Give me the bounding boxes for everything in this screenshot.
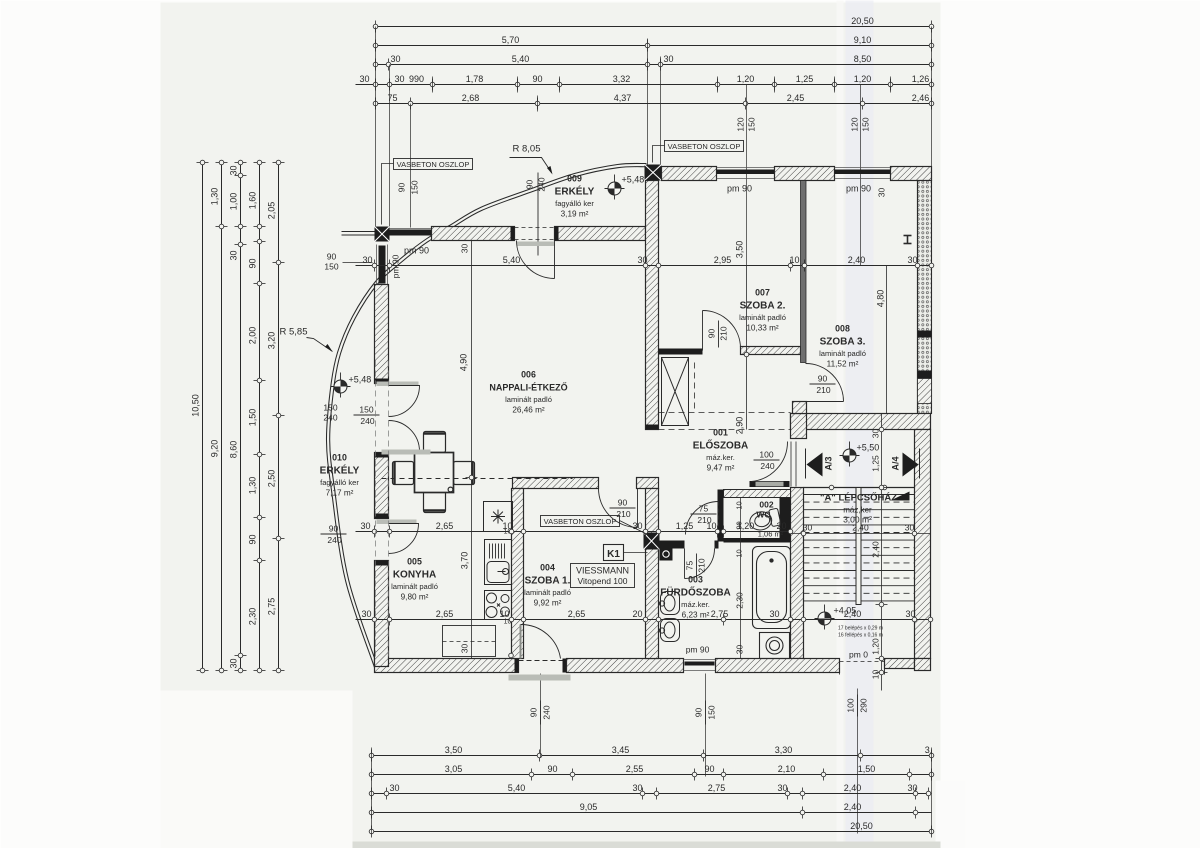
- top dim line 5,40 / 8,50: [373, 54, 934, 71]
- vasbeton oszlop box 1: [382, 159, 473, 225]
- section mark A/3: [806, 449, 834, 479]
- window labels 120/150: [736, 117, 871, 131]
- svg-text:2,30: 2,30: [248, 608, 258, 626]
- svg-text:pm 90: pm 90: [686, 645, 710, 655]
- left wall window bar: [377, 245, 388, 285]
- svg-text:2,40: 2,40: [844, 783, 862, 793]
- svg-text:VASBETON OSZLOP: VASBETON OSZLOP: [397, 160, 470, 169]
- svg-text:4,90: 4,90: [459, 354, 469, 372]
- kitchen balcony door 90/240: [377, 520, 419, 554]
- svg-text:2,50: 2,50: [267, 470, 277, 488]
- top dim line detail: [356, 74, 934, 91]
- svg-text:30: 30: [632, 783, 642, 793]
- svg-text:30: 30: [394, 74, 404, 84]
- svg-text:3,: 3,: [925, 745, 933, 755]
- svg-text:pm 90: pm 90: [404, 246, 429, 256]
- window label 90/150 left: [397, 180, 420, 194]
- bottom dim 20,50: [369, 821, 934, 838]
- R 8,05 label: [510, 144, 553, 175]
- svg-text:laminált padló: laminált padló: [524, 588, 571, 597]
- dim label szoba3 door 90/210: [810, 374, 836, 396]
- svg-text:4,37: 4,37: [614, 93, 632, 103]
- balcony top door sill: [517, 242, 555, 247]
- svg-text:002: 002: [759, 500, 773, 510]
- svg-text:240: 240: [360, 416, 374, 426]
- left wall X column: [375, 227, 390, 242]
- svg-text:001: 001: [713, 428, 728, 438]
- svg-text:30: 30: [769, 609, 779, 619]
- balcony double door 150/240: [377, 382, 420, 452]
- WC left wall: [718, 490, 724, 542]
- wall szoba1-bath: [646, 489, 659, 659]
- svg-text:120: 120: [850, 117, 860, 131]
- svg-text:10,33 m²: 10,33 m²: [746, 324, 779, 333]
- svg-text:30: 30: [390, 54, 400, 64]
- bath door arc (bath side): [685, 549, 715, 579]
- room label erkely 009: [555, 174, 595, 219]
- room label furdoszoba 003: [660, 575, 731, 620]
- dim label bath door 75/210: [691, 504, 717, 526]
- svg-text:2,30: 2,30: [735, 592, 745, 609]
- svg-text:30: 30: [359, 74, 369, 84]
- svg-text:30: 30: [460, 644, 470, 654]
- szoba2 door 90/210: [703, 311, 741, 351]
- svg-text:90: 90: [818, 374, 828, 384]
- wall bar right part: [637, 478, 659, 489]
- level marker +5,48 left: [331, 373, 372, 398]
- svg-text:NAPPALI-ÉTKEZŐ: NAPPALI-ÉTKEZŐ: [489, 382, 567, 393]
- window label 90/150 bottom: [694, 701, 717, 725]
- svg-text:9,92 m²: 9,92 m²: [534, 599, 562, 608]
- svg-text:A/4: A/4: [891, 456, 901, 470]
- ventilation shaft: [662, 358, 689, 426]
- svg-text:2,40: 2,40: [844, 609, 862, 619]
- svg-text:10: 10: [499, 609, 509, 619]
- svg-text:90: 90: [327, 252, 337, 262]
- svg-text:30: 30: [777, 783, 787, 793]
- svg-text:2,68: 2,68: [462, 93, 480, 103]
- stair texts: [820, 492, 897, 525]
- svg-text:máz,ker: máz,ker: [843, 506, 872, 515]
- svg-text:90: 90: [529, 708, 539, 718]
- svg-text:1,26: 1,26: [912, 74, 930, 84]
- svg-text:10: 10: [502, 521, 512, 531]
- svg-text:30: 30: [735, 645, 745, 655]
- bottom grey strip: [353, 842, 941, 848]
- svg-text:pm 90: pm 90: [727, 184, 752, 194]
- svg-text:30: 30: [803, 523, 813, 533]
- svg-text:1,20: 1,20: [737, 74, 755, 84]
- svg-text:150: 150: [707, 705, 717, 719]
- room label nappali 006: [489, 370, 567, 415]
- svg-text:7,17 m²: 7,17 m²: [326, 489, 354, 498]
- wall nappali-szoba2: [646, 181, 659, 430]
- svg-text:laminált padló: laminált padló: [739, 313, 786, 322]
- svg-text:SZOBA 3.: SZOBA 3.: [820, 337, 866, 348]
- svg-text:90: 90: [618, 498, 628, 508]
- svg-text:150: 150: [747, 117, 757, 131]
- svg-text:8,60: 8,60: [229, 441, 239, 459]
- szoba3 vertical dim 4,80: [876, 266, 887, 414]
- svg-text:2,05: 2,05: [267, 202, 277, 220]
- flue block: [660, 548, 673, 561]
- svg-text:30: 30: [229, 658, 239, 668]
- left wall segment 1: [375, 285, 389, 384]
- svg-text:10: 10: [735, 501, 744, 509]
- wc room label: [756, 500, 773, 520]
- svg-text:30: 30: [229, 250, 239, 260]
- svg-text:VIESSMANN: VIESSMANN: [576, 566, 629, 576]
- svg-text:240: 240: [327, 535, 341, 545]
- svg-text:"A" LÉPCSŐHÁZ: "A" LÉPCSŐHÁZ: [820, 492, 897, 504]
- window top W1 pm90: [717, 168, 775, 179]
- left dim 2,05/3,20: [267, 160, 285, 673]
- section mark I on right wall: [904, 236, 912, 244]
- svg-text:008: 008: [835, 324, 850, 334]
- svg-text:17 belépés x 0,29 m: 17 belépés x 0,29 m: [838, 626, 883, 632]
- dining table: [393, 432, 475, 513]
- svg-text:3,05: 3,05: [445, 764, 463, 774]
- svg-text:20,50: 20,50: [850, 821, 873, 831]
- szoba2 south wall black bar: [659, 349, 703, 355]
- level marker +5,50 landing: [840, 442, 880, 467]
- svg-text:ERKÉLY: ERKÉLY: [555, 185, 595, 198]
- svg-text:30: 30: [229, 165, 239, 175]
- svg-text:fagyálló ker: fagyálló ker: [320, 478, 359, 487]
- svg-text:1,00: 1,00: [229, 193, 239, 211]
- svg-text:120: 120: [736, 117, 746, 131]
- svg-text:3,32: 3,32: [613, 74, 631, 84]
- hall opening dashes: [650, 363, 791, 621]
- top dim line 75/2,68/4,37: [373, 93, 934, 110]
- svg-text:26,46 m²: 26,46 m²: [512, 406, 545, 415]
- top guide lines: [376, 27, 932, 266]
- svg-text:3,50: 3,50: [735, 241, 745, 259]
- svg-text:90: 90: [694, 708, 704, 718]
- svg-text:10: 10: [735, 549, 744, 557]
- svg-text:laminált padló: laminált padló: [819, 349, 866, 358]
- svg-text:5,40: 5,40: [512, 54, 530, 64]
- svg-text:3,50: 3,50: [445, 745, 463, 755]
- szoba3 door 90/210: [806, 364, 844, 402]
- svg-text:210: 210: [616, 509, 630, 519]
- svg-text:150: 150: [861, 117, 871, 131]
- svg-text:+5,48: +5,48: [622, 175, 645, 185]
- dim label left balcony door 150/240: [354, 405, 380, 427]
- svg-text:90: 90: [329, 524, 339, 534]
- svg-text:90: 90: [707, 329, 717, 339]
- svg-text:004: 004: [540, 563, 555, 573]
- svg-text:WC: WC: [756, 510, 770, 520]
- kitchen stove: [485, 591, 512, 620]
- interior vertical dim 4,90/3,70: [459, 241, 478, 659]
- vasbeton oszlop box 3: [541, 516, 646, 534]
- svg-text:1,25: 1,25: [871, 455, 881, 472]
- dim label kitchen balcony door 90/240: [321, 524, 347, 546]
- bottom wall left segment: [375, 659, 519, 673]
- svg-text:3,70: 3,70: [460, 552, 470, 570]
- svg-text:VASBETON OSZLOP: VASBETON OSZLOP: [544, 517, 617, 526]
- svg-text:2,75: 2,75: [711, 609, 729, 619]
- dim label entrance door 100/240: [754, 450, 780, 472]
- right wall black bands + hatch patch: [918, 331, 932, 338]
- svg-text:1,20: 1,20: [854, 74, 872, 84]
- svg-text:290: 290: [859, 698, 869, 712]
- staircase steps: [804, 485, 915, 604]
- svg-text:1,50: 1,50: [858, 764, 876, 774]
- svg-text:5,70: 5,70: [502, 35, 520, 45]
- left dim 10,50: [191, 160, 209, 673]
- svg-text:2,90: 2,90: [735, 417, 745, 435]
- balcony door label 90/240 rotated: [525, 173, 547, 256]
- svg-text:003: 003: [688, 575, 703, 585]
- svg-text:2,55: 2,55: [626, 764, 644, 774]
- svg-text:1,25: 1,25: [796, 74, 814, 84]
- WC right wall: [780, 498, 791, 542]
- right exterior wall (dotted): [918, 181, 932, 414]
- left balcony window labels 90/150: [323, 403, 337, 423]
- bottom right corner block: [915, 659, 931, 671]
- svg-text:210: 210: [719, 326, 729, 340]
- wall stub below szoba3 door: [793, 402, 807, 414]
- wc small dims: [735, 498, 784, 659]
- svg-text:máz.ker.: máz.ker.: [706, 453, 735, 462]
- svg-text:2,75: 2,75: [708, 783, 726, 793]
- svg-text:2,46: 2,46: [912, 93, 930, 103]
- stair dims: [791, 523, 931, 540]
- svg-text:2,40: 2,40: [848, 255, 866, 265]
- hall-bath wall: [659, 541, 685, 549]
- top dim line 5,70 / 9,10: [373, 35, 934, 52]
- svg-text:30: 30: [637, 255, 647, 265]
- svg-text:9,20: 9,20: [210, 440, 220, 458]
- svg-text:2,40: 2,40: [852, 523, 869, 533]
- wash basins: [659, 592, 679, 642]
- svg-text:4,80: 4,80: [876, 290, 886, 308]
- svg-text:150: 150: [410, 180, 420, 194]
- bottom guide lines: [372, 674, 932, 834]
- svg-text:fagyálló ker: fagyálló ker: [555, 199, 594, 208]
- level marker +4,05 stair: [815, 605, 857, 630]
- svg-text:150: 150: [324, 262, 338, 272]
- wall szoba2-szoba3 (10cm): [801, 181, 807, 363]
- svg-text:90: 90: [248, 534, 258, 544]
- svg-text:9,05: 9,05: [580, 802, 598, 812]
- svg-text:30: 30: [362, 255, 372, 265]
- svg-text:SZOBA 1.: SZOBA 1.: [525, 576, 571, 587]
- svg-text:2,75: 2,75: [267, 598, 277, 616]
- szoba1 garden door: [509, 624, 571, 680]
- svg-text:R 5,85: R 5,85: [280, 327, 308, 338]
- svg-text:2,00: 2,00: [248, 327, 258, 345]
- left dim 8,60: [229, 160, 247, 673]
- svg-text:Vitopend 100: Vitopend 100: [578, 576, 628, 586]
- left dim 9,20: [210, 160, 228, 673]
- top wall B segment 2: [555, 227, 646, 241]
- nappali-hall door 90/210: [599, 489, 638, 528]
- svg-text:3,20: 3,20: [267, 332, 277, 350]
- svg-text:R 8,05: R 8,05: [513, 144, 541, 155]
- staircase exterior door gap: [840, 662, 885, 675]
- svg-text:30: 30: [871, 429, 881, 439]
- bathroom window in bottom wall: [684, 660, 716, 671]
- bottom wall jamb black caps: [515, 659, 519, 673]
- svg-text:30: 30: [389, 783, 399, 793]
- kitchen sink unit: [485, 540, 512, 585]
- svg-text:A/3: A/3: [824, 456, 834, 470]
- svg-text:laminált padló: laminált padló: [391, 582, 438, 591]
- svg-text:2,40: 2,40: [844, 802, 862, 812]
- svg-text:2,65: 2,65: [436, 609, 454, 619]
- svg-text:9,47 m²: 9,47 m²: [707, 464, 735, 473]
- interior dim line y531: [356, 521, 793, 538]
- svg-text:8,50: 8,50: [854, 54, 872, 64]
- svg-text:75: 75: [685, 561, 695, 571]
- svg-text:210: 210: [697, 558, 707, 572]
- interior dim line y265: [356, 255, 934, 272]
- top wall B window bar: [390, 229, 432, 236]
- svg-text:240: 240: [760, 461, 774, 471]
- svg-text:100: 100: [846, 698, 856, 712]
- svg-text:90: 90: [248, 258, 258, 268]
- svg-text:009: 009: [567, 174, 582, 184]
- door label 90/240 bottom: [529, 701, 552, 725]
- staircase right wall: [915, 430, 931, 659]
- svg-text:ERKÉLY: ERKÉLY: [320, 464, 360, 477]
- section mark A/4: [891, 449, 920, 479]
- svg-text:1,20: 1,20: [871, 638, 881, 655]
- svg-text:30: 30: [663, 54, 673, 64]
- svg-text:SZOBA 2.: SZOBA 2.: [740, 301, 786, 312]
- svg-text:9,80 m²: 9,80 m²: [401, 593, 429, 602]
- staircase left wall upper stub: [791, 414, 807, 439]
- svg-text:1,25: 1,25: [676, 521, 694, 531]
- svg-text:90: 90: [735, 521, 744, 529]
- bathtub: [753, 547, 791, 629]
- room label szoba3 008: [819, 324, 866, 369]
- svg-text:007: 007: [755, 288, 770, 298]
- svg-text:30: 30: [361, 609, 371, 619]
- bottom dim 3,05: [369, 764, 934, 781]
- svg-text:pm 0: pm 0: [849, 650, 868, 660]
- bottom wall middle segment: [567, 659, 684, 673]
- svg-text:K1: K1: [607, 549, 620, 560]
- bottom dim 9,05: [369, 802, 931, 819]
- bath door2 label 75/210 rotated: [685, 554, 707, 578]
- svg-text:5,40: 5,40: [508, 783, 526, 793]
- bottom dim 5,40: [369, 783, 931, 800]
- svg-text:150: 150: [359, 405, 373, 415]
- bottom wall segment bath-stair: [716, 659, 840, 673]
- left wall dashed guides: [376, 361, 389, 659]
- svg-text:2,10: 2,10: [778, 764, 796, 774]
- svg-text:1,78: 1,78: [466, 74, 484, 84]
- VIESSMANN box: [571, 564, 635, 588]
- svg-text:240: 240: [542, 705, 552, 719]
- WC top wall: [724, 490, 791, 498]
- bottom wall right segment: [885, 659, 915, 669]
- balcony rail left stub: [342, 231, 375, 233]
- svg-text:100: 100: [759, 450, 773, 460]
- svg-text:+5,50: +5,50: [857, 443, 880, 453]
- wall top T2: [775, 167, 835, 181]
- staircase left wall: [791, 488, 804, 659]
- svg-text:2,65: 2,65: [436, 521, 454, 531]
- top dim line 20,50: [373, 16, 934, 33]
- level marker +5,48 balcony top: [605, 175, 645, 200]
- room label konyha 005: [391, 557, 438, 602]
- left wall window labels: [324, 252, 372, 272]
- entrance door 100/240: [750, 442, 797, 488]
- svg-text:90: 90: [547, 764, 557, 774]
- svg-text:3,45: 3,45: [612, 745, 630, 755]
- wall top T3 corner: [891, 167, 932, 181]
- svg-text:laminált padló: laminált padló: [505, 395, 552, 404]
- svg-text:10: 10: [789, 255, 799, 265]
- svg-text:2,40: 2,40: [871, 541, 881, 558]
- scanner blue stripe: [846, 1, 874, 848]
- svg-text:3,30: 3,30: [775, 745, 793, 755]
- dim label nappali-hall door 90/210: [610, 498, 636, 520]
- left wall segment 2: [375, 453, 389, 519]
- kitchen counter: fridge: [484, 502, 513, 532]
- svg-text:010: 010: [332, 453, 347, 463]
- svg-text:005: 005: [407, 557, 422, 567]
- top wall section with X column: [645, 165, 662, 181]
- svg-text:30: 30: [460, 244, 470, 254]
- svg-text:2,65: 2,65: [568, 609, 586, 619]
- svg-text:pm 90: pm 90: [391, 254, 401, 278]
- svg-text:006: 006: [521, 370, 536, 380]
- right vertical dim: [871, 414, 888, 691]
- svg-text:90: 90: [704, 764, 714, 774]
- R 5,85 label: [280, 327, 333, 352]
- washing machine: [760, 633, 790, 659]
- kitchen cabinet: [443, 626, 496, 657]
- room label szoba2 007: [739, 288, 786, 333]
- bottom dim 3,50/3,45/3,30: [369, 745, 934, 762]
- svg-text:10,50: 10,50: [191, 394, 201, 417]
- svg-text:ELŐSZOBA: ELŐSZOBA: [693, 439, 749, 452]
- interior dim line y619: [356, 609, 933, 626]
- svg-text:9,10: 9,10: [854, 35, 872, 45]
- svg-text:990: 990: [409, 74, 424, 84]
- WC door arc (hall side): [686, 502, 719, 535]
- svg-text:6,23 m²: 6,23 m²: [682, 611, 710, 620]
- svg-text:1,50: 1,50: [248, 409, 258, 427]
- svg-text:1,30: 1,30: [210, 188, 220, 206]
- left dim detail: [248, 160, 266, 673]
- svg-text:10: 10: [871, 670, 881, 680]
- svg-text:pm 90: pm 90: [846, 184, 871, 194]
- room label szoba1 004: [524, 563, 571, 608]
- svg-text:KONYHA: KONYHA: [393, 570, 436, 581]
- svg-text:30: 30: [907, 783, 917, 793]
- WC bottom wall: [724, 538, 791, 543]
- balcony door top (dashed opening): [515, 228, 555, 279]
- wall kitchen-szoba1: [512, 489, 524, 659]
- window top W2 pm90: [835, 168, 891, 179]
- svg-text:75: 75: [387, 93, 397, 103]
- wall top T1: [662, 167, 717, 181]
- svg-text:30: 30: [905, 523, 915, 533]
- svg-text:90: 90: [532, 74, 542, 84]
- svg-text:30: 30: [360, 521, 370, 531]
- svg-text:FÜRDŐSZOBA: FÜRDŐSZOBA: [660, 586, 731, 599]
- svg-text:máz.ker.: máz.ker.: [681, 600, 710, 609]
- vasbeton oszlop column (hatched square): [644, 533, 660, 550]
- pm labels: [391, 184, 872, 655]
